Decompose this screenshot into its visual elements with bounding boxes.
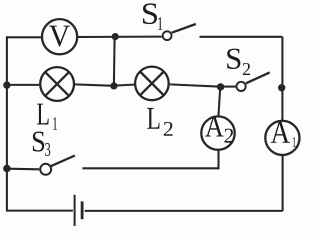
label A1_1 — [293, 137, 296, 147]
switch S3 circle — [40, 164, 51, 175]
wire middle junction to lamp L2 — [114, 85, 134, 86]
lamp L1 circle — [40, 67, 74, 101]
node junction left (L1 row) — [3, 81, 10, 88]
wire A2 bottom down — [217, 151, 219, 169]
wire A2 branch down — [219, 88, 221, 116]
wire A1 bottom to bottom-right corner — [282, 156, 284, 211]
label A2_2 — [225, 129, 234, 143]
label L2_2 — [164, 122, 173, 136]
wire L1 to middle junction — [75, 84, 114, 85]
node junction right (S2 / A1) — [278, 84, 285, 91]
label S2_S — [227, 49, 240, 69]
wire A2 to S3 row — [82, 167, 219, 169]
label S3_S — [33, 132, 44, 152]
label L1_1 — [53, 117, 57, 130]
wire bottom left of battery — [6, 210, 73, 212]
node junction middle (L1 / L2 / V branch) — [110, 82, 117, 89]
voltmeter V circle — [42, 19, 77, 54]
wire junction to S2 — [221, 86, 236, 88]
lamp L2 cross — [140, 72, 164, 96]
switch S2 circle — [237, 82, 246, 91]
lamp L1 cross — [45, 72, 69, 96]
label S1_1 — [158, 17, 163, 30]
wire L2 to A2 junction — [170, 84, 221, 86]
lamp L2 circle — [135, 67, 169, 101]
wire left junction to lamp L1 — [7, 84, 39, 86]
wire vertical branch between top junction and lamp row — [113, 37, 116, 86]
label L1_L — [37, 104, 49, 125]
switch S2 lever — [246, 72, 270, 83]
label S3_3 — [45, 143, 50, 156]
switch S1 circle — [163, 31, 172, 40]
wire left vertical — [6, 36, 8, 211]
label S1_S — [143, 3, 157, 24]
node junction (L2 / S2 / A2) — [217, 83, 224, 90]
battery short plate — [81, 201, 84, 219]
label A2_A — [205, 116, 223, 136]
label S2_2 — [243, 63, 250, 75]
switch S1 lever — [172, 24, 196, 33]
wire top-left to voltmeter — [6, 36, 41, 38]
wire bottom right of battery — [85, 210, 283, 212]
node junction left (S3 row) — [3, 165, 11, 173]
label L2_L — [147, 108, 159, 129]
wire right vertical upper — [281, 37, 283, 120]
node junction top (V / S1 / L1 branch) — [112, 33, 119, 40]
battery long plate — [74, 195, 76, 226]
switch S3 lever — [51, 156, 75, 167]
label V — [49, 26, 70, 47]
wire voltmeter to S1 — [78, 36, 162, 38]
wire left junction to S3 — [7, 168, 39, 171]
label A1_A — [271, 122, 290, 143]
ammeter A2 circle — [201, 116, 234, 149]
wire S1 to top-right corner — [200, 36, 283, 38]
ammeter A1 circle — [265, 121, 299, 155]
